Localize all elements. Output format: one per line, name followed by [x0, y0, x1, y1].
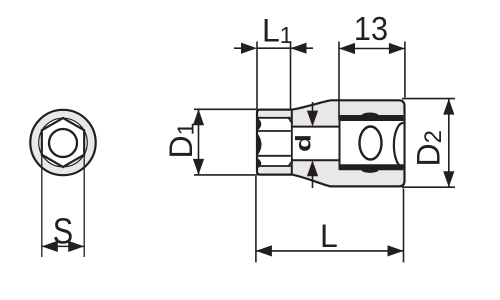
svg-text:S: S — [53, 212, 73, 252]
svg-text:d: d — [292, 134, 315, 152]
svg-text:L: L — [320, 218, 338, 254]
svg-text:13: 13 — [354, 10, 388, 47]
